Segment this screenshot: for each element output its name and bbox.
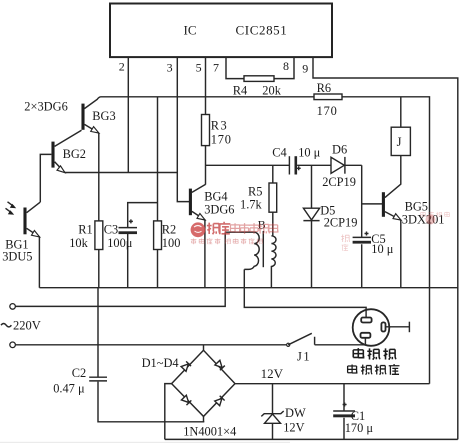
svg-text:10 μ: 10 μ <box>371 242 393 256</box>
svg-text:BG2: BG2 <box>63 147 86 161</box>
capacitor C1 <box>333 384 373 440</box>
diode D5 with wire <box>303 165 357 287</box>
resistor R5 <box>272 165 274 236</box>
svg-text:100: 100 <box>162 236 181 250</box>
svg-text:3: 3 <box>167 60 173 74</box>
svg-text:12V: 12V <box>261 366 284 381</box>
resistor R1 <box>95 221 103 250</box>
svg-text:100μ: 100μ <box>107 236 133 250</box>
svg-text:R2: R2 <box>162 223 176 237</box>
svg-text:2×3DG6: 2×3DG6 <box>24 100 67 114</box>
switch J1 <box>287 333 366 363</box>
svg-text:D1~D4: D1~D4 <box>142 356 179 370</box>
capacitor C5 <box>353 232 394 256</box>
svg-text:D6: D6 <box>332 142 347 156</box>
transistor BG3 <box>83 104 116 134</box>
svg-text:J1: J1 <box>297 349 311 363</box>
svg-text:220V: 220V <box>13 318 41 332</box>
capacitor C2 with wires <box>53 288 204 422</box>
socket: TV power socket <box>353 309 410 346</box>
svg-text:R4: R4 <box>233 83 247 97</box>
svg-text:2CP19: 2CP19 <box>322 175 356 189</box>
wire bottom rail <box>165 438 458 440</box>
svg-text:3DU5: 3DU5 <box>2 249 32 263</box>
svg-text:BG5: BG5 <box>405 199 428 213</box>
svg-text:R5: R5 <box>248 185 262 199</box>
wire +12V rail from BG3 collector to R6 to right drop <box>84 97 429 384</box>
watermark small line <box>191 238 263 244</box>
bottom scan smear <box>0 442 290 443</box>
wire bridge left to bottom rail <box>165 384 172 440</box>
svg-text:CIC2851: CIC2851 <box>236 23 288 38</box>
wire C4 to D6 and D6 to BG5 base line <box>297 164 362 166</box>
svg-text:10k: 10k <box>69 236 88 250</box>
svg-text:12V: 12V <box>283 421 304 435</box>
resistor R3 <box>202 115 210 146</box>
watermark logo disk <box>191 222 206 237</box>
wire rail drop to R2 <box>157 97 159 288</box>
svg-text:BG3: BG3 <box>92 109 115 123</box>
wire pin9 to right edge down to bottom rail <box>313 57 458 439</box>
svg-text:2: 2 <box>119 60 125 74</box>
transistor BG4 <box>190 184 234 287</box>
svg-text:1.7k: 1.7k <box>240 198 262 212</box>
svg-text:IC: IC <box>184 23 197 38</box>
svg-text:C4: C4 <box>272 146 286 160</box>
svg-text:J: J <box>397 135 402 149</box>
terminal circle 2 <box>10 342 16 348</box>
wire left winding bottom down to socket top <box>244 269 366 311</box>
transistor BG1 phototransistor <box>2 202 40 288</box>
svg-text:R3: R3 <box>211 118 228 132</box>
svg-text:9: 9 <box>302 61 308 75</box>
wire 12V rail <box>235 383 430 385</box>
wire C3 branch <box>128 203 158 288</box>
label TV (CJK pseudoglyphs) 电视机 <box>353 348 396 360</box>
zener DW <box>261 384 306 440</box>
resistor R4 <box>244 76 274 82</box>
svg-text:1N4001×4: 1N4001×4 <box>183 424 236 438</box>
svg-text:3DG6: 3DG6 <box>204 203 234 217</box>
diode D6 <box>322 142 356 189</box>
svg-text:0.47 μ: 0.47 μ <box>53 382 85 396</box>
wire BG3 emitter down through bus to R1 <box>98 133 100 288</box>
transistor BG2 <box>40 130 86 202</box>
capacitor C4 <box>272 146 320 175</box>
svg-text:7: 7 <box>213 60 219 74</box>
svg-text:R1: R1 <box>78 223 92 237</box>
svg-text:DW: DW <box>285 406 306 420</box>
transistor BG5 <box>362 156 445 288</box>
wire pin2 to emitter bus <box>127 57 129 172</box>
watermark faint right disk <box>426 215 436 225</box>
resistor R2 <box>154 221 162 250</box>
resistor R6 <box>314 94 342 100</box>
svg-text:8: 8 <box>283 59 289 73</box>
svg-text:170: 170 <box>317 104 338 118</box>
label power socket (CJK pseudoglyphs) 电源插座 <box>348 364 400 375</box>
wire node y165.3 from R3 to C4 <box>206 164 290 166</box>
wire left winding top down to 220V terminal 1 <box>15 232 225 306</box>
svg-text:5: 5 <box>196 60 202 74</box>
svg-text:R6: R6 <box>317 81 331 95</box>
wire 220V line2 to J1 <box>15 344 288 346</box>
bridge rectifier D1-D4 <box>142 350 237 438</box>
wire pin7 pin8 through R4 <box>226 57 294 78</box>
svg-text:2CP19: 2CP19 <box>324 215 358 229</box>
terminal circle 1 <box>10 304 16 310</box>
svg-text:C3: C3 <box>104 223 118 237</box>
transformer core <box>262 231 264 267</box>
svg-text:170: 170 <box>211 133 232 147</box>
watermark text 维库电子市场网 <box>207 222 278 234</box>
wire emitter bus y172.5 <box>65 172 178 174</box>
transformer B left winding <box>225 232 259 269</box>
svg-text:170 μ: 170 μ <box>345 421 374 435</box>
wire bridge top stub <box>203 345 205 351</box>
svg-text:C2: C2 <box>72 366 86 380</box>
capacitor C3 <box>104 219 137 250</box>
op-amp U1 : IC CIC2851 box <box>110 4 332 58</box>
svg-text:10 μ: 10 μ <box>298 146 320 160</box>
transformer B right winding <box>271 236 276 288</box>
wire bridge bottom to C2 line <box>203 416 205 421</box>
relay J box with leads <box>391 97 410 156</box>
svg-text:BG4: BG4 <box>204 190 227 204</box>
wire pin5 to R3 and node <box>205 57 207 184</box>
wire pin3 to BG4 base <box>177 57 189 201</box>
wire D6 node down through base to C5 <box>361 165 363 287</box>
label ~220V <box>1 324 11 327</box>
svg-text:20k: 20k <box>262 83 281 97</box>
wire common rail <box>39 287 457 289</box>
